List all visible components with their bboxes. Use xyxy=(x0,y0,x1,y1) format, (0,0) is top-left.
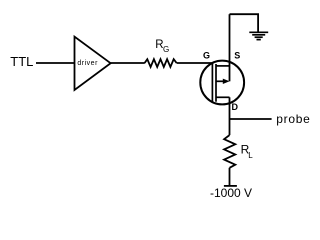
wire source up to top rail xyxy=(229,14,231,81)
wire RG to gate xyxy=(177,62,212,64)
supply terminal bar xyxy=(224,185,237,187)
wire top rail to ground stem xyxy=(230,14,259,32)
svg-text:S: S xyxy=(234,51,240,61)
Q1 body tap with arrow xyxy=(216,80,224,82)
Q1 source tap xyxy=(216,65,230,67)
Q1 channel bar xyxy=(215,64,217,102)
transistor Q1 MOSFET body circle xyxy=(200,61,244,105)
wire probe node to RL xyxy=(229,119,231,135)
wire probe node to probe terminal xyxy=(230,118,272,120)
ground xyxy=(249,31,268,33)
svg-text:D: D xyxy=(232,102,239,112)
wire drain down to probe node xyxy=(229,97,231,119)
svg-text:-1000 V: -1000 V xyxy=(210,186,252,200)
svg-text:driver: driver xyxy=(77,60,98,67)
svg-text:G: G xyxy=(203,51,210,61)
Q1 drain tap xyxy=(216,96,230,98)
svg-text:G: G xyxy=(163,45,169,54)
buffer U1 driver triangle xyxy=(75,37,111,90)
wire TTL to driver input xyxy=(36,62,75,64)
wire driver output to RG xyxy=(111,62,145,64)
resistor RL xyxy=(224,135,235,168)
svg-text:probe: probe xyxy=(276,112,310,126)
svg-text:TTL: TTL xyxy=(10,54,33,69)
wire RL to supply terminal xyxy=(229,168,231,186)
Q1 gate bar xyxy=(211,63,213,102)
svg-text:L: L xyxy=(248,151,253,160)
resistor RG xyxy=(145,59,177,67)
